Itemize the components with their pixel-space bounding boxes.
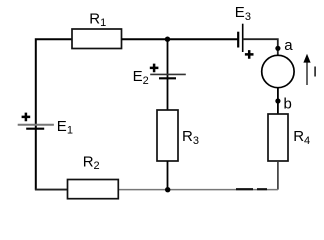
node b: [275, 98, 280, 103]
wire middle branch top junction to R3: [167, 39, 169, 110]
plus sign E2: [150, 64, 159, 73]
node a: [275, 46, 280, 51]
battery E2 long plate: [150, 73, 186, 75]
wire circle bottom to R4: [277, 88, 279, 114]
wire top segment R1 to E3: [122, 38, 239, 40]
resistor R4: [268, 114, 288, 161]
current arrow I: [306, 61, 308, 85]
resistor R2: [68, 180, 119, 199]
wire bottom-left dark segment: [35, 189, 68, 191]
svg-text:b: b: [284, 95, 292, 112]
svg-text:I: I: [313, 63, 317, 80]
battery E1 long plate: [18, 124, 54, 126]
svg-text:a: a: [284, 37, 293, 54]
battery E3 short plate: [237, 32, 239, 48]
node junction bottom: [165, 187, 170, 192]
battery E2 short plate: [159, 77, 176, 79]
wire R4 bottom to bottom rail: [277, 161, 279, 190]
resistor R1: [72, 29, 122, 49]
battery E1 short plate: [26, 128, 44, 130]
wire dark dash 1 on bottom rail: [236, 188, 253, 190]
resistor R3: [157, 110, 178, 161]
current source / meter circle U1: [262, 55, 294, 87]
wire bottom rail: [36, 189, 278, 191]
node junction top (middle branch tap): [165, 37, 170, 42]
plus sign E3: [245, 50, 254, 59]
wire R3 bottom to bottom rail: [167, 161, 169, 190]
wire dark dash 2 on bottom rail: [257, 188, 267, 190]
battery E3 long plate: [242, 24, 244, 52]
plus sign E1: [22, 113, 31, 122]
wire E3 to top-right corner down to circle: [243, 39, 278, 55]
wire left rail + top-left corner + top segment to R1: [36, 39, 72, 189]
